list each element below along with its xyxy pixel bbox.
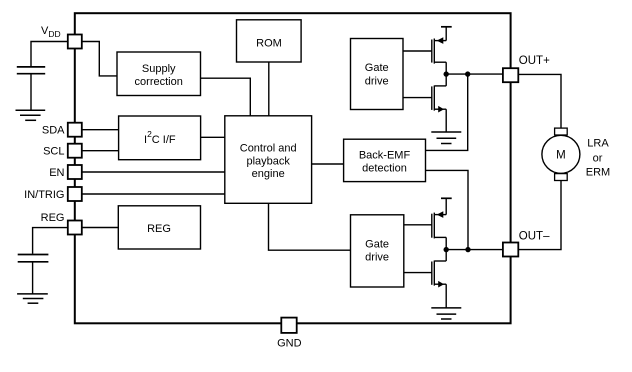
- wire control engine to back-EMF detection: [312, 163, 344, 165]
- svg-text:drive: drive: [365, 75, 389, 87]
- junction node OUT- inner: [444, 247, 471, 252]
- svg-text:SCL: SCL: [43, 146, 64, 158]
- block ROM: [237, 20, 302, 62]
- ground below C2: [17, 294, 48, 303]
- wire REG pin to REG block: [82, 227, 119, 229]
- svg-text:SDA: SDA: [42, 125, 65, 137]
- wire IN/TRIG to control engine: [82, 193, 225, 195]
- svg-text:GND: GND: [277, 337, 302, 349]
- block supply correction: [117, 52, 201, 96]
- supply rail top half-bridge: [441, 27, 452, 41]
- pin SDA: [42, 123, 82, 137]
- block I2C interface: [119, 116, 201, 160]
- wire control engine to lower gate drive: [269, 203, 351, 250]
- wire SCL to I2C: [82, 150, 119, 152]
- transistor Q2 low-side top: [403, 74, 446, 132]
- svg-text:EN: EN: [49, 167, 64, 179]
- block back-EMF detection: [344, 139, 426, 181]
- wire back-EMF detection to OUT+ node: [426, 74, 468, 150]
- pin VDD: [41, 25, 82, 49]
- transistor Q4 low-side bottom: [404, 250, 446, 308]
- IC boundary: [75, 13, 511, 323]
- pin REG: [41, 212, 82, 235]
- wire top half-bridge to OUT+ pin: [446, 73, 503, 75]
- svg-text:REG: REG: [41, 212, 65, 224]
- ground below C1: [16, 110, 46, 120]
- svg-text:OUT–: OUT–: [519, 230, 550, 242]
- ground below bottom half-bridge: [431, 308, 461, 319]
- capacitor C2 on REG: [18, 228, 68, 294]
- wire supply correction to control engine: [201, 78, 251, 116]
- pin EN: [49, 165, 82, 179]
- wire motor to OUT- pin: [519, 181, 562, 250]
- transistor Q1 high-side top: [403, 37, 446, 74]
- wire bottom half-bridge to OUT- pin: [446, 249, 503, 251]
- wire EN to control engine: [82, 171, 225, 173]
- svg-text:playback: playback: [246, 155, 290, 167]
- svg-text:engine: engine: [252, 168, 285, 180]
- svg-text:Gate: Gate: [365, 62, 389, 74]
- junction node OUT+ inner: [444, 71, 471, 76]
- wire VDD pin to supply correction: [82, 42, 117, 76]
- pin OUT+: [503, 55, 550, 82]
- svg-text:Back-EMF: Back-EMF: [359, 150, 411, 162]
- svg-text:drive: drive: [365, 252, 389, 264]
- pin IN/TRIG: [24, 187, 82, 201]
- block REG regulator: [118, 206, 200, 249]
- block control and playback engine: [225, 116, 312, 204]
- svg-text:or: or: [593, 153, 603, 165]
- svg-text:M: M: [556, 150, 566, 162]
- capacitor C1 on VDD: [17, 42, 68, 110]
- svg-text:correction: correction: [135, 76, 183, 88]
- svg-text:Supply: Supply: [142, 63, 176, 75]
- svg-text:Gate: Gate: [365, 238, 389, 250]
- label LRA or ERM: [586, 137, 610, 178]
- block gate drive top: [351, 39, 404, 110]
- wire OUT+ pin to motor: [519, 74, 562, 128]
- pin SCL: [43, 144, 82, 158]
- svg-text:OUT+: OUT+: [519, 55, 550, 67]
- pin OUT-: [503, 230, 550, 256]
- svg-text:IN/TRIG: IN/TRIG: [24, 189, 64, 201]
- pin GND: [277, 318, 302, 350]
- wire I2C to control engine: [201, 136, 225, 138]
- wire SDA to I2C: [82, 129, 119, 131]
- svg-text:REG: REG: [147, 223, 171, 235]
- svg-text:LRA: LRA: [587, 137, 609, 149]
- motor M load: [542, 128, 580, 180]
- svg-text:detection: detection: [362, 163, 407, 175]
- supply rail bottom half-bridge: [441, 198, 452, 214]
- svg-text:ERM: ERM: [586, 166, 610, 178]
- svg-text:Control and: Control and: [240, 143, 297, 155]
- wire ROM to control engine: [268, 62, 270, 116]
- transistor Q3 high-side bottom: [404, 211, 446, 249]
- svg-text:ROM: ROM: [256, 37, 282, 49]
- ground below top half-bridge: [431, 132, 461, 144]
- block gate drive bottom: [351, 215, 404, 287]
- wire back-EMF detection to OUT- node: [426, 170, 469, 249]
